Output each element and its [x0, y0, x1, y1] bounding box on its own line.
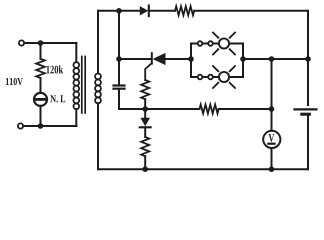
wire J6 to R5: [145, 108, 199, 110]
terminal T2 (110V line, bottom): [18, 123, 23, 128]
wire top rail right: [194, 10, 308, 12]
wire R3 to J6: [144, 99, 146, 109]
diode D1: [140, 6, 148, 15]
wire C1 bottom to node J6: [119, 90, 145, 109]
neon lamp N.L: [34, 93, 47, 106]
wire lamp bottom branch: [191, 76, 243, 78]
node J11 (voltmeter branch top): [269, 56, 275, 62]
node J10 (lamp section right): [240, 56, 246, 62]
wire voltmeter to bottom rail: [271, 148, 273, 169]
transformer TR1 core: [81, 57, 83, 114]
node J4 (right edge / lamp rail): [305, 56, 311, 62]
wire transformer primary bottom lead: [75, 109, 77, 126]
resistor R2: [175, 6, 194, 15]
node J8 (voltmeter branch / R5): [269, 106, 275, 112]
wire R4 to bottom rail: [144, 156, 146, 169]
node J5 (SCR cathode wire tap): [116, 56, 122, 62]
wire secondary top lead to top rail: [97, 11, 99, 74]
capacitor C1: [114, 84, 125, 86]
contact S1b: [208, 41, 213, 46]
transformer TR1 primary winding: [73, 62, 79, 109]
lamp L1: [219, 38, 229, 48]
label 110V: [6, 78, 23, 85]
wire T1 to transformer primary top: [24, 42, 76, 44]
wire neon lamp to bottom wire: [40, 106, 42, 126]
diode D2 (pointing down): [140, 118, 150, 127]
wire battery top lead: [307, 59, 309, 105]
wire J5 to SCR cathode: [119, 58, 151, 60]
wire right edge down: [307, 11, 309, 59]
voltmeter V1: [263, 131, 280, 148]
wire C1 branch vertical: [118, 11, 120, 84]
contact S2b: [208, 75, 213, 80]
wire voltmeter branch upper: [271, 59, 273, 131]
wire R1 to neon lamp: [40, 78, 42, 93]
wire J6 to D2: [144, 109, 146, 118]
wire lamp top branch: [191, 43, 243, 45]
lamp L1 rays: [213, 33, 235, 55]
node J9 (lamp section left): [188, 56, 194, 62]
wire transformer primary top lead: [75, 43, 77, 62]
wire D2 to R4: [144, 127, 146, 137]
wire top rail left: [98, 10, 140, 12]
wire secondary bottom lead to bottom rail: [97, 103, 99, 169]
contact S2a: [198, 75, 203, 80]
SCR Q1 (thyristor, cathode left): [151, 53, 153, 63]
wire lamp section left vertical: [190, 44, 192, 78]
lamp L2 rays: [213, 66, 235, 88]
resistor R5: [200, 105, 219, 114]
node J7 (bottom rail): [142, 166, 148, 172]
label N. L: [50, 95, 65, 102]
node J6: [142, 106, 148, 112]
wire bottom rail: [98, 168, 308, 170]
wire lamp node to right edge: [243, 58, 308, 60]
node J1 (tap of 120k branch, top): [38, 40, 44, 46]
resistor R4 (gate chain lower): [141, 137, 149, 156]
node J2 (tap of 120k branch, bottom): [38, 123, 44, 129]
battery B1: [295, 108, 317, 110]
terminal T1 (110V line, top): [19, 40, 24, 45]
resistor R1 120k: [36, 59, 45, 78]
transformer TR1 secondary winding: [95, 74, 101, 104]
contact S1a: [198, 41, 203, 46]
node J12 (bottom rail): [269, 166, 275, 172]
wire SCR anode to lamp node: [166, 58, 192, 60]
wire D1 to R2: [149, 10, 175, 12]
SCR Q1 gate lead: [145, 63, 152, 80]
wire T2 to transformer primary bottom: [23, 125, 76, 127]
node J3 (top rail / C1 branch): [116, 8, 122, 14]
lamp L2: [219, 72, 229, 82]
wire lamp section right vertical: [242, 44, 244, 78]
wire R5 to node J8: [219, 108, 272, 110]
resistor R3 (gate chain upper): [141, 80, 149, 99]
wire battery bottom lead: [307, 116, 309, 170]
value label 120k: [46, 65, 63, 73]
wire J1 down to R1: [40, 43, 42, 59]
